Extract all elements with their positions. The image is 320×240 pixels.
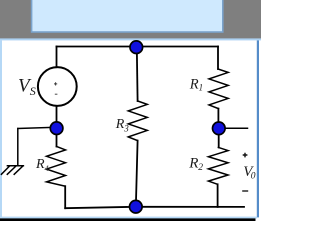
- svg-text:S: S: [30, 84, 36, 98]
- node right: [213, 122, 226, 135]
- svg-text:R: R: [115, 117, 125, 132]
- wire node to R2 top: [218, 134, 220, 147]
- node left: [50, 122, 63, 135]
- bottom black strip: [0, 218, 256, 221]
- node top: [130, 41, 143, 54]
- resistor R1 zigzag: [209, 69, 228, 109]
- svg-text:3: 3: [123, 123, 129, 133]
- wire node to R4 top: [56, 134, 58, 147]
- bottom slide border blue line: [0, 217, 257, 219]
- header divider light blue line: [0, 38, 261, 40]
- wire middle branch lower: [136, 141, 138, 201]
- svg-text:0: 0: [251, 171, 256, 181]
- wire node output stub: [224, 127, 248, 129]
- wire left vertical to source top: [56, 47, 58, 68]
- wire ground vertical: [17, 129, 19, 166]
- svg-text:4: 4: [45, 164, 49, 173]
- svg-text:R: R: [35, 157, 45, 172]
- ground: [1, 166, 23, 175]
- light blue slide rect in header: [32, 0, 223, 32]
- polarity minus inside source: [55, 93, 58, 95]
- svg-text:1: 1: [199, 83, 204, 93]
- node bottom: [130, 200, 143, 213]
- wire node to ground stub horizontal: [18, 127, 52, 128]
- wire R2 bottom lead: [217, 184, 219, 207]
- wire source bottom to node: [56, 106, 58, 123]
- label plus output: [243, 153, 248, 158]
- resistor R2 zigzag: [208, 147, 228, 184]
- wire R1 bottom lead to node: [217, 109, 219, 123]
- resistor R4 zigzag: [47, 147, 66, 187]
- wire bottom horizontal: [65, 207, 244, 208]
- gray header bar: [0, 0, 261, 39]
- left slide border: [0, 40, 2, 217]
- svg-text:2: 2: [198, 163, 203, 173]
- polarity plus inside source: [54, 82, 57, 85]
- svg-text:R: R: [188, 156, 198, 172]
- wire R4 bottom lead: [64, 186, 66, 208]
- label minus output: [242, 190, 248, 192]
- right slide border: [257, 40, 259, 217]
- wire top horizontal: [57, 46, 219, 48]
- wire middle branch upper: [136, 47, 139, 101]
- resistor R3 zigzag: [128, 101, 147, 141]
- voltage source VS circle: [38, 67, 77, 106]
- svg-text:R: R: [189, 77, 199, 93]
- wire right vertical from top corner: [217, 47, 219, 70]
